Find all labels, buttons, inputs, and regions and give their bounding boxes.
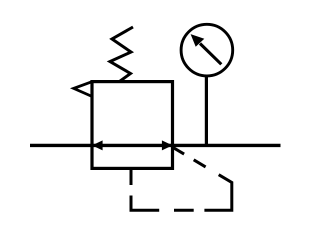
- spring (zigzag): [110, 27, 133, 82]
- pilot dashed line: left corner L segment: [131, 196, 159, 211]
- pilot dashed line: stub segment 1 below box: [130, 167, 133, 185]
- gauge needle shaft: [200, 44, 221, 65]
- regulator body box: [92, 82, 173, 169]
- pilot dashed line: right corner segment with riser and diagonal end: [204, 175, 231, 211]
- pilot dashed line: bottom middle dash: [174, 209, 194, 212]
- pilot dashed line: diagonal dash top: [172, 147, 184, 154]
- left arrowhead of double arrow: [92, 140, 103, 150]
- wire main flow line: [30, 144, 281, 147]
- gauge stem: [205, 75, 208, 146]
- gauge needle arrowhead: [191, 34, 205, 47]
- pressure gauge circle: [181, 24, 233, 76]
- pilot dashed line: diagonal dash mid: [194, 160, 206, 167]
- relief vent triangle: [74, 82, 92, 96]
- right arrowhead of double arrow: [162, 140, 173, 150]
